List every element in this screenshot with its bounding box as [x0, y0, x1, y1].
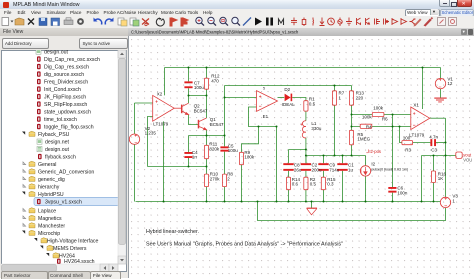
node divider junctions	[334, 85, 336, 87]
node collector row junctions	[188, 95, 190, 97]
resistor R6	[372, 112, 384, 116]
resistor R8	[222, 174, 226, 187]
svg-text:Hybrid linear-switcher.: Hybrid linear-switcher.	[146, 229, 199, 235]
svg-text:100k: 100k	[362, 114, 373, 119]
net label I2-pos	[366, 149, 381, 154]
svg-text:design.out: design.out	[45, 147, 69, 153]
svg-text:VOU: VOU	[463, 158, 472, 163]
title bar	[0, 0, 474, 10]
op-amp X2 input marks	[155, 100, 157, 115]
svg-text:Microchip: Microchip	[38, 231, 60, 237]
svg-text:MEMS Drivers: MEMS Drivers	[53, 246, 87, 252]
svg-text:C:\Users\jesus\Documents\MPLAB: C:\Users\jesus\Documents\MPLAB Mindi\Exa…	[131, 30, 299, 35]
resistor R1	[304, 101, 308, 111]
wire vout riser to bus	[421, 156, 423, 202]
resistor R5	[349, 130, 353, 145]
node E1 minus junctions	[258, 126, 260, 128]
svg-text:dig_source.sxsch: dig_source.sxsch	[44, 72, 84, 78]
svg-text:100u: 100u	[194, 85, 205, 90]
op-amp X1	[411, 107, 430, 130]
svg-text:time_tol.sxsch: time_tol.sxsch	[44, 117, 77, 123]
svg-text:26u: 26u	[294, 167, 302, 172]
svg-text:1n: 1n	[192, 155, 198, 160]
svg-text:Dig_Cap_res_osc.sxsch: Dig_Cap_res_osc.sxsch	[44, 57, 100, 63]
wire V1 to ground	[440, 89, 442, 98]
svg-text:D2: D2	[284, 87, 290, 92]
svg-text:General: General	[38, 162, 56, 168]
wire C6 column	[392, 115, 394, 202]
svg-text:IDEAL: IDEAL	[282, 102, 296, 107]
wire vout row	[422, 155, 456, 157]
svg-text:R6: R6	[382, 116, 388, 121]
wire V2 top column	[134, 103, 136, 134]
wire R6 row	[352, 114, 411, 116]
wire L1 to mid bus	[305, 138, 307, 163]
svg-text:0.5: 0.5	[310, 182, 317, 187]
capacitor C9	[318, 163, 328, 165]
capacitor C4	[184, 152, 192, 154]
resistor R16	[431, 171, 435, 183]
wire R4 row	[352, 126, 411, 128]
svg-text:LT1079: LT1079	[409, 133, 424, 138]
wire R11 links	[206, 136, 208, 167]
wire C1 column	[342, 156, 344, 202]
wire E1 minus loop	[249, 107, 277, 127]
wire C4 column	[188, 136, 190, 167]
capacitor C6	[388, 187, 396, 189]
svg-text:Monte Carlo: Monte Carlo	[161, 10, 186, 15]
svg-text:270k: 270k	[210, 176, 221, 181]
wire I2 links	[365, 156, 367, 202]
svg-text:LT1079: LT1079	[153, 122, 168, 127]
svg-text:0.5: 0.5	[309, 101, 316, 106]
tabs	[1, 271, 48, 279]
svg-text:See User's Manual "Graphs, Pro: See User's Manual "Graphs, Probes and Da…	[146, 242, 343, 248]
path row: file view header + path bar	[0, 28, 128, 37]
wire X2 output to Q2 base	[174, 107, 182, 109]
svg-text:Place: Place	[70, 10, 82, 15]
node vout junctions	[433, 155, 435, 157]
source V2	[129, 134, 139, 144]
svg-text:1MEG: 1MEG	[357, 137, 370, 142]
svg-text:100u: 100u	[228, 148, 239, 153]
resistor R13	[349, 91, 353, 105]
wire R1 to L1	[305, 111, 307, 121]
horizontal scrollbar	[1, 264, 118, 272]
window buttons	[439, 0, 451, 7]
transistor Q2	[182, 103, 189, 114]
wire V2 bottom to bus	[134, 144, 136, 201]
wire C8 column	[288, 150, 290, 202]
toolbar	[0, 16, 474, 29]
resistor R2	[304, 177, 308, 190]
wire B top row to dividers	[225, 85, 352, 87]
wire top rail	[165, 67, 441, 69]
svg-text:design.net: design.net	[45, 140, 69, 146]
svg-text:100k: 100k	[244, 155, 255, 160]
svg-text:714u: 714u	[329, 167, 340, 172]
svg-text:toggle_flip_flop.sxsch: toggle_flip_flop.sxsch	[44, 125, 94, 131]
wire X1 output	[430, 117, 446, 119]
wire B emitter node riser	[224, 86, 226, 136]
svg-text:BC547: BC547	[210, 122, 224, 127]
svg-text:0.3: 0.3	[327, 182, 334, 187]
wire E1 output to D2	[278, 97, 285, 99]
wire X1 power drop	[422, 68, 424, 110]
svg-text:Tools: Tools	[188, 10, 199, 15]
source V1	[435, 78, 445, 88]
probe vout	[456, 152, 462, 158]
ground mid bus	[307, 208, 317, 215]
wire E1 plus input	[225, 97, 257, 99]
wire mid bus	[306, 155, 366, 157]
svg-text:Hierarchy: Hierarchy	[138, 10, 158, 15]
svg-text:330u: 330u	[311, 126, 322, 131]
svg-text:flyback.sxsch: flyback.sxsch	[45, 155, 76, 161]
svg-text:Magnetics: Magnetics	[38, 216, 62, 222]
wire V1 drop	[440, 68, 442, 79]
left panel	[0, 36, 128, 278]
svg-text:Probe AC/Noise: Probe AC/Noise	[104, 10, 137, 15]
svg-text:Dig_Cap_res.sxsch: Dig_Cap_res.sxsch	[44, 65, 89, 71]
svg-text:HybridPSU: HybridPSU	[38, 192, 64, 198]
resistor R14	[286, 177, 290, 190]
svg-text:1K: 1K	[438, 176, 444, 181]
capacitor C5	[220, 146, 228, 148]
svg-text:0.6: 0.6	[292, 182, 299, 187]
transistor Q1	[199, 118, 207, 130]
wire emitter node row	[189, 135, 225, 137]
svg-text:Simulator: Simulator	[47, 10, 67, 15]
svg-text:1: 1	[339, 95, 342, 100]
svg-text:100k: 100k	[373, 106, 384, 111]
svg-text:Flyback_PSU: Flyback_PSU	[38, 132, 70, 138]
diode D2	[285, 94, 291, 102]
node emitter row junctions	[206, 135, 208, 137]
wire E1 minus drop to bus	[276, 127, 278, 202]
svg-text:Init_Cond.sxsch: Init_Cond.sxsch	[44, 87, 81, 93]
svg-text:12: 12	[447, 81, 453, 86]
svg-text:2: 2	[227, 176, 230, 181]
op-amp E1	[257, 91, 278, 112]
wire C3 to output column	[436, 142, 446, 144]
source V3	[440, 197, 450, 207]
resistor R12	[204, 78, 208, 89]
wire R9 bottom	[241, 165, 243, 202]
wire mid ground stub	[311, 202, 313, 209]
node ground bus junctions	[163, 201, 165, 203]
svg-text:I2-pos: I2-pos	[369, 149, 381, 154]
svg-text:X2: X2	[157, 92, 163, 97]
svg-text:generic_dig: generic_dig	[38, 177, 65, 183]
ground under V1	[434, 98, 446, 102]
wire R12 column	[206, 68, 208, 96]
resistor R10	[204, 174, 208, 187]
wire output column to V3	[445, 118, 447, 197]
wire Q1 emitter drop	[206, 130, 208, 136]
wire Q2 emitter to Q1 base	[189, 115, 199, 125]
svg-text:design.out: design.out	[44, 50, 68, 56]
svg-text:Freq_Divider.sxsch: Freq_Divider.sxsch	[44, 80, 88, 86]
svg-text:hierarchy: hierarchy	[38, 185, 60, 191]
svg-text:R4: R4	[366, 124, 372, 129]
node lower-left row junctions	[188, 166, 190, 168]
menu bar	[0, 9, 474, 16]
wire collector node	[189, 96, 207, 119]
wire C9 column	[323, 156, 325, 202]
wire X2 minus input loop	[148, 117, 153, 167]
node mid bus junctions	[305, 149, 307, 151]
schematic area	[128, 36, 474, 278]
svg-text:SR_FlipFlop.sxsch: SR_FlipFlop.sxsch	[44, 102, 87, 108]
wire ground bus	[136, 201, 441, 203]
svg-text:JK_FlipFlop.sxsch: JK_FlipFlop.sxsch	[44, 95, 86, 101]
wire C5 column	[224, 136, 226, 175]
wire lower-left node row	[148, 166, 207, 168]
resistor R4	[360, 124, 372, 128]
svg-text:pulse(0 [load] 0.03 1m): pulse(0 [load] 0.03 1m)	[371, 167, 408, 171]
wire X2 plus input	[135, 102, 153, 104]
svg-text:200u: 200u	[312, 167, 323, 172]
svg-text:1u: 1u	[348, 167, 354, 172]
wire X2 power drop	[164, 68, 166, 96]
capacitor C7	[184, 81, 192, 83]
resistor R3	[402, 141, 413, 145]
wire C7 column	[188, 68, 190, 96]
svg-text:E1: E1	[263, 114, 269, 119]
svg-text:Help: Help	[203, 10, 213, 15]
op-amp X1 input marks	[413, 112, 415, 125]
svg-text:Generic_AD_conversion: Generic_AD_conversion	[38, 170, 94, 176]
node C3 junction	[445, 142, 447, 144]
svg-text:Laplace: Laplace	[38, 209, 56, 215]
svg-text:View: View	[31, 10, 42, 15]
svg-text:5: 5	[263, 86, 265, 90]
resistor R7	[332, 91, 336, 105]
capacitor C8	[283, 163, 293, 165]
wire R3 tap	[400, 127, 402, 143]
wire C8 tap	[289, 149, 306, 151]
wire R10 links	[206, 167, 208, 202]
resistor R15	[321, 177, 325, 190]
wire lower return loop	[258, 202, 446, 221]
op-amp E1 input marks	[259, 95, 261, 106]
wire R7 links	[334, 86, 336, 156]
svg-text:File: File	[4, 10, 12, 15]
svg-text:3vpsu_v1.sxsch: 3vpsu_v1.sxsch	[45, 200, 82, 206]
inductor L1	[302, 121, 306, 138]
wire X2 V- drop to ground bus	[163, 121, 165, 201]
node top rail junctions	[188, 67, 190, 69]
wire R16 links	[433, 156, 435, 202]
svg-text:4.7n: 4.7n	[429, 135, 438, 140]
svg-text:High-Voltage Interface: High-Voltage Interface	[47, 239, 98, 245]
wire R9 tap	[242, 127, 259, 153]
resistor R11	[204, 145, 208, 158]
wire R8 bottom link	[224, 187, 226, 202]
svg-text:X1: X1	[413, 103, 419, 108]
svg-text:820k: 820k	[209, 146, 220, 151]
svg-text:BC547: BC547	[194, 108, 208, 113]
resistor R9	[239, 152, 243, 164]
op-amp X2	[153, 95, 175, 121]
svg-text:220: 220	[356, 95, 364, 100]
wire C2 column	[305, 156, 307, 202]
svg-text:Edit: Edit	[18, 10, 27, 15]
wire R3 to C3	[413, 142, 431, 144]
wire D2 to R1	[292, 98, 306, 101]
svg-text:C3: C3	[431, 148, 437, 153]
capacitor C2	[301, 163, 311, 165]
node E1 plus junction	[224, 97, 226, 99]
wire R13 column	[351, 86, 353, 156]
vertical scrollbar	[118, 50, 126, 264]
svg-text:100n: 100n	[397, 190, 408, 195]
svg-text:I2: I2	[371, 162, 375, 167]
svg-text:Probe: Probe	[87, 10, 100, 15]
svg-text:R3: R3	[405, 148, 411, 153]
web view combo + schematic editor button	[405, 9, 440, 17]
svg-text:Manchester: Manchester	[38, 224, 65, 230]
node X1 input junctions	[392, 114, 394, 116]
svg-text:1.235: 1.235	[145, 131, 157, 136]
capacitor C3	[430, 139, 432, 146]
svg-text:1: 1	[452, 198, 455, 203]
current source I2	[360, 166, 370, 176]
capacitor C1	[337, 163, 347, 165]
svg-text:state_updown.sxsch: state_updown.sxsch	[44, 110, 91, 116]
svg-text:470: 470	[211, 78, 219, 83]
tree box	[1, 50, 127, 272]
